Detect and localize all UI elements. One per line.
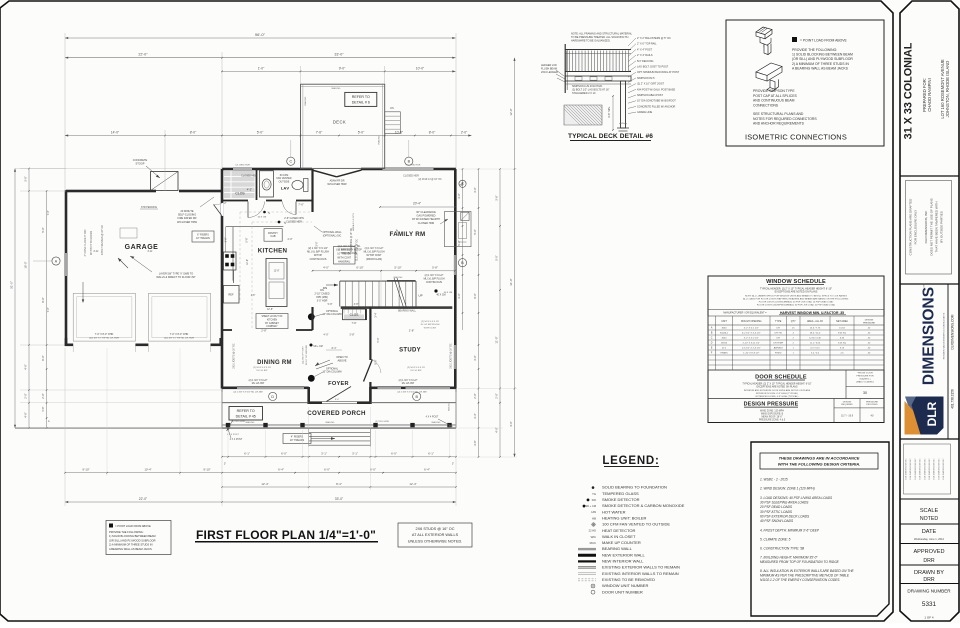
svg-text:CONTINUOUS: CONTINUOUS — [341, 252, 357, 255]
svg-text:6'-10": 6'-10" — [356, 266, 363, 270]
svg-text:ABOVE: ABOVE — [338, 358, 347, 362]
svg-text:6. CONSTRUCTION TYPE: 5B: 6. CONSTRUCTION TYPE: 5B — [760, 547, 805, 551]
svg-text:6'-0": 6'-0" — [370, 468, 376, 472]
svg-text:WITH THE FOLLOWING DESIGN CRIT: WITH THE FOLLOWING DESIGN CRITERIA. — [778, 462, 860, 467]
svg-text:4 X 4 POST: 4 X 4 POST — [230, 438, 243, 441]
annotation stair risers box — [334, 247, 356, 265]
svg-text:11'-0": 11'-0" — [495, 336, 499, 343]
svg-text:2'-8": 2'-8" — [251, 295, 256, 297]
svg-text:4 X 4 POST: 4 X 4 POST — [227, 434, 239, 436]
svg-text:SIMPSON H2.5: SIMPSON H2.5 — [637, 77, 655, 80]
title block sheet border — [900, 1, 959, 621]
svg-text:DRR: DRR — [923, 577, 934, 583]
isometric sketch beam splice connector — [756, 63, 782, 91]
svg-text:NEW INTERIOR WALL: NEW INTERIOR WALL — [602, 559, 644, 564]
left dimension outer line — [14, 169, 16, 429]
porch deck edge thick — [222, 427, 456, 429]
svg-text:9'-0": 9'-0" — [339, 66, 346, 70]
deck outline — [301, 84, 385, 168]
svg-text:W/TOP CONT: W/TOP CONT — [366, 254, 382, 257]
overall top dimension 96'-0 — [65, 37, 456, 39]
family room width dim — [380, 206, 455, 208]
top dimension row4 14'-0 8'-0 deck widths — [65, 135, 472, 137]
window schedule grid — [708, 315, 884, 317]
title block divider approved/drawn — [900, 564, 959, 566]
svg-text:CONCRETE FILLED W/ ANCHOR: CONCRETE FILLED W/ ANCHOR — [637, 105, 676, 108]
svg-text:MEASURED FROM TOP OF FOUNDATIO: MEASURED FROM TOP OF FOUNDATION TO RIDGE — [760, 560, 840, 564]
house bottom wall — [222, 387, 237, 390]
svg-text:MUC: MUC — [590, 541, 596, 545]
svg-text:(2) 2X10 CJ @ 16" OC: (2) 2X10 CJ @ 16" OC — [418, 179, 442, 181]
svg-text:5'-8": 5'-8" — [432, 266, 438, 270]
svg-text:3'-8": 3'-8" — [349, 333, 354, 337]
svg-text:W/ PITCH TO DOORS: W/ PITCH TO DOORS — [90, 231, 93, 255]
svg-text:DLR DIMENSIONS INC: DLR DIMENSIONS INC — [929, 458, 931, 480]
svg-text:(4) 1 3/4" X 9 1/2": (4) 1 3/4" X 9 1/2" — [365, 247, 384, 250]
svg-text:4" CONC FLOOR 4" MIN: 4" CONC FLOOR 4" MIN — [84, 229, 87, 256]
svg-text:(2) 5/4 X 4 X 6 1/2: (2) 5/4 X 4 X 6 1/2 — [253, 367, 272, 369]
svg-text:DLR DIMENSIONS INC: DLR DIMENSIONS INC — [920, 458, 922, 480]
svg-text:DLR DIMENSIONS, INC: DLR DIMENSIONS, INC — [924, 210, 928, 244]
svg-text:9'-0": 9'-0" — [374, 359, 378, 364]
svg-text:7'-0": 7'-0" — [47, 307, 50, 312]
kitchen fridge — [224, 286, 240, 304]
svg-text:2) A MINIMUM OF THREE STUDS IN: 2) A MINIMUM OF THREE STUDS IN — [792, 62, 849, 66]
garage left wall — [65, 190, 68, 253]
svg-text:RAILING: RAILING — [304, 96, 307, 105]
svg-text:STUDY: STUDY — [399, 348, 421, 354]
svg-text:AND ANCHOR REQUIREMENTS: AND ANCHOR REQUIREMENTS — [753, 122, 805, 126]
bottom overall dimension row — [65, 501, 222, 503]
svg-text:(2) 5/4 X 4 X 6 1/2: (2) 5/4 X 4 X 6 1/2 — [421, 321, 440, 323]
svg-text:8'-4": 8'-4" — [336, 482, 342, 486]
svg-text:40 PSF SNOW LOADS: 40 PSF SNOW LOADS — [760, 519, 794, 523]
svg-text:12'-4": 12'-4" — [261, 482, 268, 486]
svg-text:GARAGE: GARAGE — [125, 244, 159, 251]
svg-text:PROVIDE SIMPSON TYPE: PROVIDE SIMPSON TYPE — [753, 89, 795, 93]
svg-text:15.5 / 7.75: 15.5 / 7.75 — [810, 328, 821, 330]
svg-text:ML LVL B/P: ML LVL B/P — [402, 382, 415, 385]
svg-text:TYPE: TYPE — [775, 320, 782, 323]
svg-text:HANDRAIL: HANDRAIL — [338, 260, 351, 263]
svg-text:ALL LOADS FOR FLOOR JOISTS RAF: ALL LOADS FOR FLOOR JOISTS RAFTERS, HEAD… — [743, 298, 849, 301]
svg-text:7. BUILDING HEIGHT: MAXIMUM 35: 7. BUILDING HEIGHT: MAXIMUM 35'-0" — [760, 556, 818, 560]
svg-text:1'-0": 1'-0" — [258, 66, 265, 70]
annotation garage floor arrow — [118, 258, 128, 268]
svg-text:12'-4": 12'-4" — [409, 482, 416, 486]
svg-text:DOOR UNIT NUMBER: DOOR UNIT NUMBER — [602, 589, 643, 594]
annotation risers box garage — [192, 231, 214, 242]
title block divider scale/date — [900, 523, 959, 525]
porch roof edge right — [370, 402, 456, 404]
kitchen counter below range — [233, 270, 235, 283]
grid bubble right — [458, 259, 466, 267]
svg-text:C/L GRID HDR: C/L GRID HDR — [406, 165, 421, 167]
svg-text:EXCEPTIONS ARE NOTED ON PLANS: EXCEPTIONS ARE NOTED ON PLANS — [775, 291, 818, 294]
svg-text:2'-10" X 3'-11 1/2": 2'-10" X 3'-11 1/2" — [743, 343, 761, 345]
svg-text:QTY: QTY — [791, 320, 796, 323]
svg-text:LAV: LAV — [281, 186, 290, 191]
garage top wall — [66, 190, 156, 193]
deck detail footing — [617, 127, 629, 129]
svg-text:OPEN TO: OPEN TO — [336, 355, 348, 359]
svg-text:DLR DIMENSIONS INC: DLR DIMENSIONS INC — [910, 458, 912, 480]
svg-text:FOR ENCLOSURE ONLY: FOR ENCLOSURE ONLY — [914, 210, 918, 245]
svg-text:S: S — [268, 211, 270, 215]
svg-text:RAILING: RAILING — [246, 421, 255, 424]
fireplace bump-out — [445, 212, 472, 247]
svg-text:DLR DIMENSIONS INC: DLR DIMENSIONS INC — [934, 458, 936, 480]
svg-text:8-22: 8-22 — [94, 250, 99, 253]
svg-text:ATTIC TRUSSES @ 24" OC: ATTIC TRUSSES @ 24" OC — [101, 225, 104, 255]
svg-text:3'-0": 3'-0" — [457, 293, 461, 298]
design criteria outer box — [751, 442, 889, 616]
svg-text:HARDWARE TO BE GALVANIZED.: HARDWARE TO BE GALVANIZED. — [571, 39, 611, 42]
svg-text:22'-0": 22'-0" — [138, 53, 148, 57]
deck railing ticks top — [301, 86, 385, 88]
svg-text:3'-0": 3'-0" — [315, 241, 319, 246]
svg-text:HW: HW — [591, 510, 596, 514]
svg-text:GRADE LINE: GRADE LINE — [637, 111, 652, 114]
annotation smoke detector near lav wall — [263, 211, 266, 214]
svg-text:C: C — [289, 160, 292, 164]
svg-text:AREA 4 X 4 JSTS: AREA 4 X 4 JSTS — [352, 213, 355, 231]
svg-text:WIND EXPOSURE: B: WIND EXPOSURE: B — [761, 413, 784, 415]
svg-text:4'-0": 4'-0" — [287, 237, 292, 241]
svg-text:A BEARING WALL AS BEAM JACKS: A BEARING WALL AS BEAM JACKS — [792, 66, 849, 70]
svg-text:60 PSF EXTERIOR DECK LOADS: 60 PSF EXTERIOR DECK LOADS — [760, 514, 810, 518]
isometric sketch post cap connector — [756, 27, 772, 55]
svg-text:5'-0": 5'-0" — [457, 240, 461, 245]
porch right edge — [455, 389, 457, 429]
svg-text:MEAN ROOF: 28'-0": MEAN ROOF: 28'-0" — [761, 415, 782, 418]
svg-text:33'-0": 33'-0" — [334, 53, 344, 57]
svg-text:31'-0": 31'-0" — [10, 281, 14, 289]
right extension stubs — [458, 168, 517, 170]
foyer column upper — [308, 313, 315, 320]
svg-text:3'-4": 3'-4" — [473, 413, 477, 418]
svg-text:UNLESS OTHERWISE NOTED.: UNLESS OTHERWISE NOTED. — [408, 539, 463, 543]
kitchen pantry cabinet — [264, 229, 282, 242]
front steps risers note box — [283, 434, 311, 444]
svg-text:INTERIOR AND EXTERIOR DOOR SIZ: INTERIOR AND EXTERIOR DOOR SIZES ARE NOT… — [744, 389, 811, 392]
svg-text:COMPANY: COMPANY — [266, 325, 278, 328]
svg-text:NOTES FOR REQUIRED CONNECTORS: NOTES FOR REQUIRED CONNECTORS — [753, 117, 817, 121]
svg-text:(2) 5/4 X 4 X 6 1/2: (2) 5/4 X 4 X 6 1/2 — [407, 367, 426, 369]
svg-text:PROVIDE THE FOLLOWING:: PROVIDE THE FOLLOWING: — [792, 48, 837, 52]
garage attic access dashed — [120, 228, 137, 238]
svg-text:9'-10": 9'-10" — [82, 468, 89, 472]
svg-text:7'-6": 7'-6" — [298, 203, 304, 207]
svg-text:5'-0": 5'-0" — [257, 130, 264, 134]
svg-text:6'-2 1/2" X 4'-6 1/2": 6'-2 1/2" X 4'-6 1/2" — [742, 333, 761, 335]
kitchen dashed soffit lines — [240, 211, 310, 213]
svg-text:TYPICAL HEADER: (2) 2" X 10": TYPICAL HEADER: (2) 2" X 10" TYPICAL HEA… — [742, 383, 811, 386]
svg-text:SELF-CLOSING: SELF-CLOSING — [178, 214, 196, 217]
svg-text:WALK IN CLOSET: WALK IN CLOSET — [602, 534, 636, 539]
svg-text:6" RISERS: 6" RISERS — [197, 234, 209, 237]
svg-text:COVERED PORCH: COVERED PORCH — [307, 410, 366, 417]
svg-text:SMOKE DETECTOR & CARBON MONOXI: SMOKE DETECTOR & CARBON MONOXIDE — [602, 503, 685, 508]
svg-text:C/L GRID HDR: C/L GRID HDR — [235, 165, 250, 167]
svg-text:7'-0" X 8'-0" OHD: 7'-0" X 8'-0" OHD — [95, 333, 114, 336]
svg-text:6'-1": 6'-1" — [244, 452, 250, 456]
svg-text:RAILING: RAILING — [448, 403, 451, 411]
svg-text:60 X CM: 60 X CM — [258, 217, 267, 219]
svg-text:UNIT: UNIT — [721, 320, 727, 323]
concrete stoop — [151, 172, 179, 191]
svg-text:7'-0": 7'-0" — [47, 210, 50, 215]
svg-text:LAG BOLT JOIST TO POST: LAG BOLT JOIST TO POST — [637, 66, 669, 69]
svg-text:3'-0": 3'-0" — [473, 355, 477, 360]
logo section inner divider — [947, 284, 949, 439]
svg-text:3'-6" MIN.: 3'-6" MIN. — [607, 106, 611, 118]
svg-text:1) SOLID BLOCKING BETWEEN BEAM: 1) SOLID BLOCKING BETWEEN BEAM — [109, 534, 156, 538]
stair well top edge — [340, 280, 416, 282]
deck detail railing bottom rail — [565, 71, 631, 73]
svg-text:FLOOR JOISTS (LIVING AREAS):: FLOOR JOISTS (LIVING AREAS): 40 PSF LIVE… — [759, 301, 834, 304]
svg-text:SEE STRUCTURAL PLANS AND: SEE STRUCTURAL PLANS AND — [753, 112, 804, 116]
svg-text:SMOKE DETECTOR: SMOKE DETECTOR — [602, 497, 640, 502]
svg-text:CLOSED HDR: CLOSED HDR — [286, 220, 302, 223]
svg-text:OUTSIDE: OUTSIDE — [279, 180, 290, 183]
svg-text:(OPTIONAL) O/C: (OPTIONAL) O/C — [323, 234, 342, 237]
svg-text:PROVIDE THE FOLLOWING:: PROVIDE THE FOLLOWING: — [109, 530, 144, 534]
svg-text:STAGGERED 2 X 10: STAGGERED 2 X 10 — [572, 92, 596, 95]
svg-text:CLOSED HDR: CLOSED HDR — [241, 175, 257, 178]
svg-text:AWNING: AWNING — [774, 347, 783, 350]
svg-text:DH: DH — [777, 328, 781, 330]
house top wall — [222, 168, 233, 171]
svg-text:DRR: DRR — [923, 558, 934, 564]
svg-text:DECK: DECK — [333, 120, 346, 125]
bottom dimension row3 — [222, 486, 456, 488]
svg-text:5/4" DECKING: 5/4" DECKING — [637, 60, 654, 63]
svg-text:ML LVL B/P FLUSH: ML LVL B/P FLUSH — [307, 251, 329, 254]
grid bubble B top — [405, 157, 413, 165]
svg-text:12'-8": 12'-8" — [267, 308, 273, 311]
svg-text:31'-0": 31'-0" — [509, 278, 513, 285]
svg-text:10" DIA SONOTUBE W/ BIGFOOT: 10" DIA SONOTUBE W/ BIGFOOT — [637, 100, 676, 103]
svg-text:4X4 POST W/ GALV. POST BASE: 4X4 POST W/ GALV. POST BASE — [637, 88, 675, 91]
svg-text:60446-2: 60446-2 — [720, 333, 729, 335]
svg-text:Wednesday, June 1, 2012: Wednesday, June 1, 2012 — [914, 537, 944, 541]
title block divider under disclaimer — [900, 283, 959, 285]
svg-text:36" CLEARANCE: 36" CLEARANCE — [416, 211, 436, 214]
svg-text:DESIGN: DESIGN — [843, 401, 852, 403]
svg-text:2X6 STUDS @ 16" OC: 2X6 STUDS @ 16" OC — [416, 527, 455, 531]
svg-text:KITCHEN: KITCHEN — [267, 319, 277, 321]
svg-text:PRESSURE: PRESSURE — [866, 401, 879, 403]
svg-text:30: 30 — [863, 391, 867, 395]
svg-text:WINDOW UNIT NUMBER: WINDOW UNIT NUMBER — [602, 583, 648, 588]
svg-text:HEATING UNIT: BOILER: HEATING UNIT: BOILER — [602, 515, 646, 520]
annotation smoke detector foyer — [310, 344, 313, 347]
svg-text:CONTINUOUS: CONTINUOUS — [310, 258, 327, 261]
svg-text:9'-10": 9'-10" — [203, 468, 210, 472]
svg-text:= POINT LOAD FROM ABOVE: = POINT LOAD FROM ABOVE — [115, 524, 151, 528]
svg-text:9'-0": 9'-0" — [335, 399, 340, 401]
svg-text:3": 3" — [49, 420, 51, 422]
svg-text:(2) 1 3/4" X 9 1/2": (2) 1 3/4" X 9 1/2" — [308, 247, 328, 250]
stud note box bottom right — [398, 523, 472, 547]
title block disclaimer box — [906, 181, 952, 275]
isometric connections outer box — [726, 20, 884, 146]
svg-text:D: D — [271, 395, 274, 399]
svg-text:INTERIOR DOORS: 6'-8" HIGH (TY: INTERIOR DOORS: 6'-8" HIGH (TYPICAL) — [756, 392, 798, 395]
lav door swings — [247, 202, 249, 218]
svg-text:FIRE RATED DR: FIRE RATED DR — [178, 217, 197, 220]
svg-text:6'-1": 6'-1" — [428, 452, 434, 456]
svg-text:15.63: 15.63 — [839, 328, 845, 330]
foyer projection walls — [307, 387, 310, 404]
svg-text:NEW EXTERIOR WALL: NEW EXTERIOR WALL — [602, 552, 646, 557]
svg-text:10'-6": 10'-6" — [395, 130, 404, 134]
svg-text:3. LOAD DESIGNS: 40 PSF LIVI: 3. LOAD DESIGNS: 40 PSF LIVING AREA LOAD… — [760, 496, 833, 500]
svg-text:10" DIA COLUMN: 10" DIA COLUMN — [322, 371, 341, 374]
svg-text:FL LVL B/P: FL LVL B/P — [257, 370, 268, 372]
svg-text:16'-0": 16'-0" — [24, 262, 28, 269]
svg-text:DLR DIMENSIONS INC: DLR DIMENSIONS INC — [938, 458, 940, 480]
left extension lines — [20, 168, 66, 170]
title block divider under notes box — [900, 498, 959, 500]
svg-text:CLOS: CLOS — [235, 192, 245, 196]
svg-text:3": 3" — [224, 463, 226, 466]
svg-text:OPT. MINIMUM BLOCKING AT POST: OPT. MINIMUM BLOCKING AT POST — [637, 71, 680, 74]
svg-text:WIND ZONE: 120 MPH: WIND ZONE: 120 MPH — [760, 410, 784, 412]
svg-text:DLR DIMENSIONS INC: DLR DIMENSIONS INC — [943, 458, 945, 480]
study angled corner door — [364, 360, 373, 382]
deck detail ground hatch — [564, 105, 602, 125]
svg-text:SD + CM: SD + CM — [313, 346, 322, 348]
svg-text:CHADD RAMPINI: CHADD RAMPINI — [927, 78, 932, 112]
lav toilet — [304, 179, 309, 192]
svg-text:6'-0": 6'-0" — [41, 355, 45, 360]
svg-text:REQUIRED: REQUIRED — [841, 404, 853, 406]
svg-text:ML LVL B/P: ML LVL B/P — [252, 382, 265, 385]
kitchen counters along wall — [226, 226, 284, 228]
svg-text:FLOOR JOISTS (SLEEPING AREAS):: FLOOR JOISTS (SLEEPING AREAS): 30 PSF LI… — [757, 304, 836, 307]
DLR logo mark square — [903, 395, 944, 435]
svg-text:20 PSF DEAD LOADS: 20 PSF DEAD LOADS — [759, 505, 793, 509]
svg-text:6'-4": 6'-4" — [278, 468, 284, 472]
svg-text:= POINT LOAD FROM ABOVE: = POINT LOAD FROM ABOVE — [800, 39, 847, 43]
bottom dimension row2 — [65, 472, 456, 474]
svg-text:12'-8": 12'-8" — [274, 271, 280, 273]
front door and sidelites — [322, 401, 357, 403]
svg-text:(2) 2X10 PT GIRT: (2) 2X10 PT GIRT — [303, 346, 305, 364]
svg-text:5'-8": 5'-8" — [328, 303, 333, 306]
svg-text:3'-2" X 6'-1 1/2": 3'-2" X 6'-1 1/2" — [744, 328, 759, 330]
svg-text:4 X 4 POST: 4 X 4 POST — [426, 416, 439, 419]
svg-text:15.7 / -16.9: 15.7 / -16.9 — [841, 415, 854, 418]
svg-text:4. FROST DEPTH: MINIMUM 3'-6": 4. FROST DEPTH: MINIMUM 3'-6" DEEP — [760, 529, 820, 533]
svg-text:LEDGER LOK: LEDGER LOK — [541, 64, 557, 67]
deck detail balusters — [566, 51, 568, 72]
svg-text:3'-6": 3'-6" — [495, 195, 499, 200]
svg-text:DLR: DLR — [925, 401, 939, 426]
family room right wall — [454, 169, 457, 255]
svg-text:1. WSBC - 2 - 2015: 1. WSBC - 2 - 2015 — [760, 478, 788, 482]
window schedule column lines — [707, 316, 709, 370]
foyer clos right wall — [365, 309, 367, 320]
svg-text:BY OUTSIDE PARTIES: BY OUTSIDE PARTIES — [940, 211, 944, 243]
svg-text:8'-0": 8'-0" — [190, 130, 197, 134]
grid bubble A — [52, 257, 60, 265]
svg-text:DETAIL # 45: DETAIL # 45 — [236, 414, 256, 418]
front door swing — [327, 387, 352, 402]
foyer west wall — [311, 307, 313, 330]
design pressure right cells — [833, 399, 835, 423]
svg-text:NOTED: NOTED — [920, 516, 938, 522]
svg-text:FIXED: FIXED — [775, 353, 782, 355]
svg-text:31 X 33 COLONIAL: 31 X 33 COLONIAL — [903, 42, 915, 139]
svg-text:5'-0": 5'-0" — [495, 255, 499, 260]
svg-text:2" X 2" BALUSTERS @ 5" OC: 2" X 2" BALUSTERS @ 5" OC — [637, 37, 671, 40]
svg-text:UP: UP — [418, 294, 422, 298]
svg-text:NOTE: ALL LUMBER SPECS FOR WI: NOTE: ALL LUMBER SPECS FOR WINDOW UNITS … — [745, 294, 847, 297]
svg-text:5. CLIMATE ZONE: 5: 5. CLIMATE ZONE: 5 — [760, 538, 791, 542]
svg-text:7'-6": 7'-6" — [352, 322, 357, 325]
svg-text:3'-0": 3'-0" — [457, 193, 461, 198]
svg-text:3'-1": 3'-1" — [321, 452, 327, 456]
refer to detail 45 box — [229, 407, 263, 421]
svg-text:22 HD: 22 HD — [589, 529, 596, 533]
svg-text:TRANS: TRANS — [720, 352, 728, 355]
svg-text:PRESSURE ZONE: 4 & 5: PRESSURE ZONE: 4 & 5 — [759, 419, 786, 421]
svg-text:WITH CONT: WITH CONT — [337, 256, 351, 259]
point load note box bottom left — [106, 521, 171, 555]
garage door bay left — [73, 293, 135, 341]
svg-text:DLR DIMENSIONS INC: DLR DIMENSIONS INC — [915, 458, 917, 480]
title block divider drawn/number — [900, 583, 959, 585]
deck detail band joist — [565, 76, 631, 81]
svg-text:STR PENDING: STR PENDING — [141, 206, 157, 209]
svg-text:CLOSED HDR: CLOSED HDR — [418, 222, 435, 225]
closet top-left shelving — [224, 171, 255, 198]
svg-text:8'-4": 8'-4" — [332, 347, 337, 350]
front steps — [309, 431, 371, 433]
svg-text:EXISTING INTERIOR WALLS TO REM: EXISTING INTERIOR WALLS TO REMAIN — [602, 571, 679, 576]
svg-text:RAILING: RAILING — [326, 421, 335, 424]
kitchen island — [266, 259, 287, 307]
svg-text:4'-0": 4'-0" — [24, 364, 28, 369]
top dimension row3 1'-0 9'-0 10'-0 — [222, 70, 456, 72]
svg-text:2'-8": 2'-8" — [261, 329, 267, 333]
svg-text:5331: 5331 — [922, 601, 937, 608]
svg-text:JOHNSTON, RHODE ISLAND: JOHNSTON, RHODE ISLAND — [945, 61, 950, 118]
svg-text:1 OF 4: 1 OF 4 — [924, 616, 934, 620]
deck door bay chevron — [312, 170, 337, 177]
svg-text:401.738.3156: 401.738.3156 — [951, 389, 955, 409]
svg-text:(2) 2X10 HDR: (2) 2X10 HDR — [375, 421, 389, 423]
annotation foyer dn arrow — [316, 363, 333, 369]
svg-text:2) A MINIMUM OF THREE STUDS IN: 2) A MINIMUM OF THREE STUDS IN — [109, 543, 153, 547]
svg-text:2'-0": 2'-0" — [461, 130, 468, 134]
svg-text:DH TW: DH TW — [775, 333, 783, 335]
svg-text:W/TOP: W/TOP — [314, 254, 322, 257]
svg-text:2'-8": 2'-8" — [409, 329, 415, 333]
svg-text:AT ALL EXTERIOR WALLS: AT ALL EXTERIOR WALLS — [412, 533, 459, 537]
svg-text:30 PSF ATTIC LOADS: 30 PSF ATTIC LOADS — [760, 510, 793, 514]
svg-text:N1102.1.2 OF THE ENERGY CONSER: N1102.1.2 OF THE ENERGY CONSERVATION COD… — [760, 578, 840, 582]
svg-text:FLUSH BEAM: FLUSH BEAM — [541, 68, 557, 71]
svg-text:3'-1": 3'-1" — [352, 452, 358, 456]
porch roof edge left — [222, 402, 309, 404]
garage door bay right — [148, 293, 210, 341]
svg-text:RESIDENTIAL DESIGNERS & CONSUL: RESIDENTIAL DESIGNERS & CONSULTANTS — [943, 312, 946, 359]
svg-text:DH: DH — [777, 338, 781, 340]
